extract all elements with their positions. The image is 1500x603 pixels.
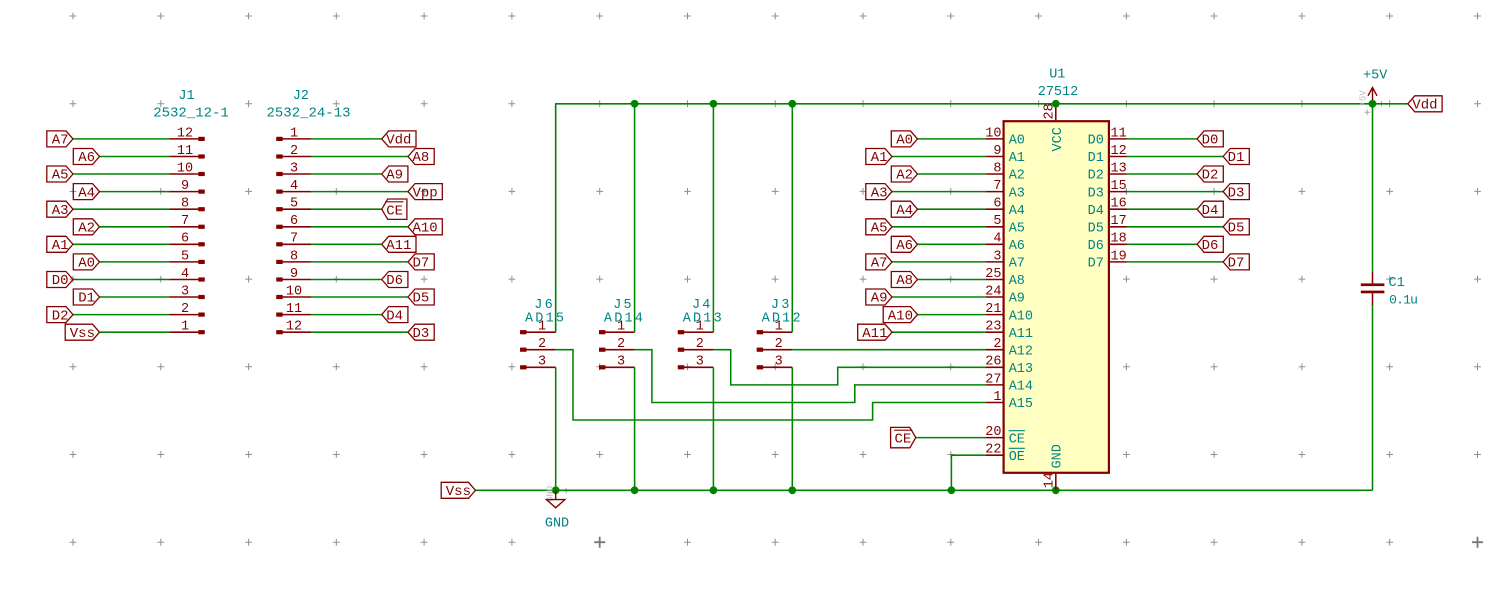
power symbol +5V — [1359, 69, 1389, 107]
svg-text:A4: A4 — [78, 185, 95, 201]
J1 pin 5 — [169, 249, 205, 264]
wire U1 to net D2 — [1127, 173, 1198, 175]
svg-text:21: 21 — [985, 302, 1001, 317]
wire J5 pin 2 to U1 A14 — [635, 350, 986, 403]
svg-text:3: 3 — [617, 355, 625, 370]
svg-text:A15: A15 — [1009, 397, 1033, 412]
svg-text:5: 5 — [290, 197, 298, 212]
global label CE — [382, 199, 407, 219]
svg-text:0.1u: 0.1u — [1389, 293, 1417, 308]
wire J3 pin 1 to +5V rail — [791, 104, 793, 332]
J1 pin 2 — [169, 302, 205, 317]
global label D3 — [408, 324, 434, 342]
svg-text:8: 8 — [290, 249, 298, 264]
global label A5 — [47, 166, 73, 184]
svg-text:A0: A0 — [1009, 134, 1025, 149]
connector J5 value AD14 — [604, 311, 645, 326]
svg-text:6: 6 — [290, 214, 298, 229]
global label A9 — [382, 166, 408, 184]
global label A4 — [891, 201, 917, 219]
svg-text:A1: A1 — [871, 150, 888, 166]
J1 pin 4 — [169, 267, 205, 282]
svg-text:3: 3 — [775, 355, 783, 370]
global label D6 — [382, 272, 408, 290]
svg-text:D1: D1 — [78, 291, 95, 307]
svg-text:2: 2 — [617, 337, 625, 352]
svg-text:A2: A2 — [896, 168, 913, 184]
wire J5 pin 1 to +5V rail — [634, 104, 636, 332]
global label A9 — [866, 289, 892, 307]
junction at +5V — [1369, 100, 1377, 108]
svg-text:18: 18 — [1111, 232, 1127, 247]
J2 pin 3 — [276, 161, 311, 176]
svg-text:A8: A8 — [413, 150, 430, 166]
svg-text:A4: A4 — [1009, 204, 1025, 219]
connector J2 reference — [293, 89, 309, 104]
svg-text:25: 25 — [985, 267, 1001, 282]
svg-text:2: 2 — [696, 337, 704, 352]
svg-text:13: 13 — [1111, 161, 1127, 176]
wire net D0 to J1 pin 4 — [73, 279, 169, 281]
U1 pin 8 (A2) — [986, 161, 1025, 183]
J5 pin 1 — [599, 320, 635, 335]
global label D5 — [408, 289, 434, 307]
svg-text:4: 4 — [290, 179, 298, 194]
junction on GND rail — [788, 486, 796, 494]
wire J2 pin 8 to net D7 — [311, 261, 408, 263]
J1 pin 9 — [169, 179, 205, 194]
global label A11 — [858, 324, 892, 342]
wire net A4 to J1 pin 9 — [100, 191, 170, 193]
wire net A0 to U1 — [918, 138, 987, 140]
wire net A3 to U1 — [892, 191, 986, 193]
svg-text:7: 7 — [290, 232, 298, 247]
J1 pin 8 — [169, 197, 205, 212]
svg-text:Vpp: Vpp — [413, 185, 438, 201]
U1 pin 23 (A11) — [985, 320, 1033, 342]
J1 pin 3 — [169, 284, 205, 299]
J3 pin 1 — [757, 320, 793, 335]
global label Vdd — [1408, 96, 1442, 114]
svg-text:U1: U1 — [1049, 68, 1065, 83]
U1 pin 28 (VCC) — [1042, 103, 1066, 151]
U1 pin 16 (D4) — [1088, 197, 1127, 219]
junction on GND rail — [1052, 486, 1060, 494]
global label A1 — [866, 149, 892, 167]
svg-text:1: 1 — [290, 126, 298, 141]
svg-text:10: 10 — [985, 126, 1001, 141]
U1 pin 18 (D6) — [1088, 232, 1127, 254]
svg-text:9: 9 — [993, 144, 1001, 159]
global label D2 — [1197, 166, 1223, 184]
wire net A7 to U1 — [892, 261, 986, 263]
U1 pin 20 (CE) — [985, 425, 1025, 447]
svg-text:A11: A11 — [1009, 327, 1033, 342]
svg-text:D6: D6 — [386, 273, 403, 289]
svg-text:11: 11 — [177, 144, 193, 159]
svg-text:D2: D2 — [1088, 169, 1104, 184]
svg-text:D7: D7 — [1228, 256, 1245, 272]
wire J2 pin 9 to net D6 — [311, 279, 381, 281]
U1 pin 19 (D7) — [1088, 249, 1127, 271]
global label D4 — [1197, 201, 1223, 219]
svg-text:22: 22 — [985, 443, 1001, 458]
J4 pin 2 — [678, 337, 714, 352]
wire J2 pin 11 to net D4 — [311, 314, 381, 316]
IC U1 27512 body — [1004, 121, 1109, 473]
global label D5 — [1223, 219, 1249, 237]
svg-text:A3: A3 — [1009, 186, 1025, 201]
svg-text:2532_24-13: 2532_24-13 — [266, 105, 350, 121]
global label D7 — [1223, 254, 1249, 272]
wire U1 to net D5 — [1127, 226, 1224, 228]
J5 pin 2 — [599, 337, 635, 352]
global label D0 — [1197, 131, 1223, 149]
svg-text:A11: A11 — [862, 326, 887, 342]
svg-text:5: 5 — [993, 214, 1001, 229]
U1 pin 13 (D2) — [1088, 161, 1127, 183]
svg-text:1: 1 — [181, 320, 189, 335]
svg-text:11: 11 — [286, 302, 302, 317]
connector J6 value AD15 — [525, 311, 566, 326]
svg-text:D3: D3 — [413, 326, 430, 342]
svg-text:1: 1 — [538, 320, 546, 335]
svg-text:D0: D0 — [1088, 134, 1104, 149]
svg-text:3: 3 — [538, 355, 546, 370]
svg-text:6: 6 — [993, 197, 1001, 212]
svg-text:A5: A5 — [1009, 222, 1025, 237]
J1 pin 7 — [169, 214, 205, 229]
wire U1 OE to GND rail — [951, 455, 986, 490]
J2 pin 4 — [276, 179, 311, 194]
U1 pin 25 (A8) — [985, 267, 1025, 289]
svg-text:2532_12-1: 2532_12-1 — [153, 105, 229, 121]
svg-text:A8: A8 — [896, 273, 913, 289]
svg-text:D7: D7 — [1088, 257, 1104, 272]
svg-text:4: 4 — [181, 267, 189, 282]
junction on GND rail — [631, 486, 639, 494]
wire J3 pin 2 to U1 A12 — [792, 349, 986, 351]
global label D1 — [73, 289, 99, 307]
wire J2 pin 10 to net D5 — [311, 296, 408, 298]
J1 pin 10 — [169, 161, 205, 176]
svg-text:A5: A5 — [52, 168, 69, 184]
svg-text:VCC: VCC — [1051, 127, 1066, 151]
J1 pin 12 — [169, 126, 205, 141]
svg-text:14: 14 — [1042, 472, 1057, 488]
wire J2 pin 1 to net Vdd — [311, 138, 381, 140]
svg-text:A5: A5 — [871, 221, 888, 237]
svg-text:1: 1 — [617, 320, 625, 335]
svg-text:CE: CE — [894, 432, 911, 448]
global label Vdd — [382, 131, 416, 149]
connector J1 reference — [178, 89, 194, 104]
svg-text:D5: D5 — [1228, 221, 1245, 237]
svg-text:11: 11 — [1111, 126, 1127, 141]
svg-text:17: 17 — [1111, 214, 1127, 229]
power symbol GND — [545, 486, 569, 532]
svg-text:Vdd: Vdd — [386, 133, 411, 149]
svg-text:GND: GND — [1051, 444, 1066, 468]
global label A7 — [866, 254, 892, 272]
J1 pin 1 — [169, 320, 205, 335]
connector J5 reference — [613, 298, 634, 313]
svg-text:26: 26 — [985, 355, 1001, 370]
global label D0 — [47, 272, 73, 290]
wire net D2 to J1 pin 2 — [73, 314, 169, 316]
svg-text:7: 7 — [993, 179, 1001, 194]
U1 pin 26 (A13) — [985, 355, 1033, 377]
U1 pin 27 (A14) — [985, 372, 1033, 394]
svg-text:27: 27 — [985, 372, 1001, 387]
global label D4 — [382, 307, 408, 325]
global label A6 — [891, 236, 917, 254]
svg-text:D6: D6 — [1088, 239, 1104, 254]
global label A7 — [47, 131, 73, 149]
global label A3 — [47, 201, 73, 219]
svg-text:A10: A10 — [413, 221, 438, 237]
svg-text:2: 2 — [538, 337, 546, 352]
connector J1 value 2532_12-1 — [153, 105, 229, 121]
svg-text:20: 20 — [985, 425, 1001, 440]
svg-text:D1: D1 — [1088, 151, 1104, 166]
wire +5V to Vdd label — [1373, 103, 1408, 105]
global label A8 — [891, 272, 917, 290]
svg-text:D1: D1 — [1228, 150, 1245, 166]
svg-text:D4: D4 — [1088, 204, 1104, 219]
J6 pin 2 — [520, 337, 556, 352]
J4 pin 3 — [678, 355, 714, 370]
wire net D1 to J1 pin 3 — [100, 296, 170, 298]
connector J4 value AD13 — [683, 311, 724, 326]
svg-text:Vss: Vss — [446, 484, 471, 500]
wire J5 pin 3 to GND rail — [634, 367, 636, 490]
svg-text:7: 7 — [181, 214, 189, 229]
wire net A6 to J1 pin 11 — [100, 156, 170, 158]
U1 pin 1 (A15) — [986, 390, 1033, 412]
wire GND rail — [476, 489, 1373, 491]
wire net A9 to U1 — [892, 296, 986, 298]
wire U1 to net D4 — [1127, 208, 1198, 210]
wire J2 pin 3 to net A9 — [311, 173, 381, 175]
global label A2 — [891, 166, 917, 184]
svg-text:A7: A7 — [871, 256, 888, 272]
junction on GND rail — [710, 486, 718, 494]
wire J6 pin 1 to +5V rail — [555, 104, 557, 332]
U1 pin 22 (OE) — [985, 443, 1025, 465]
svg-text:1: 1 — [775, 320, 783, 335]
svg-text:D2: D2 — [52, 308, 69, 324]
global label D7 — [408, 254, 434, 272]
junction on +5V rail — [710, 100, 718, 108]
svg-text:A8: A8 — [1009, 274, 1025, 289]
svg-text:A6: A6 — [896, 238, 913, 254]
connector J2 value 2532_24-13 — [266, 105, 350, 121]
global label A10 — [883, 307, 917, 325]
svg-text:Vdd: Vdd — [1412, 98, 1437, 114]
svg-text:3: 3 — [993, 249, 1001, 264]
J6 pin 3 — [520, 355, 556, 370]
svg-text:3: 3 — [696, 355, 704, 370]
svg-text:A10: A10 — [888, 308, 913, 324]
svg-text:3: 3 — [290, 161, 298, 176]
global label A8 — [408, 149, 434, 167]
global label A4 — [73, 184, 99, 202]
svg-text:C1: C1 — [1389, 276, 1405, 291]
wire J2 pin 2 to net A8 — [311, 156, 408, 158]
svg-text:15: 15 — [1111, 179, 1127, 194]
svg-text:D5: D5 — [1088, 222, 1104, 237]
svg-text:A9: A9 — [871, 291, 888, 307]
wire U1 to net D3 — [1127, 191, 1224, 193]
wire net A5 to U1 — [892, 226, 986, 228]
svg-text:A1: A1 — [52, 238, 69, 254]
svg-text:9: 9 — [290, 267, 298, 282]
svg-text:A13: A13 — [1009, 362, 1033, 377]
global label CE — [891, 427, 916, 447]
wire net A0 to J1 pin 5 — [100, 261, 170, 263]
wire net A3 to J1 pin 8 — [73, 208, 169, 210]
J2 pin 6 — [276, 214, 311, 229]
svg-text:5: 5 — [181, 249, 189, 264]
U1 reference — [1049, 68, 1065, 83]
svg-text:D0: D0 — [1202, 133, 1219, 149]
global label A1 — [47, 236, 73, 254]
J3 pin 2 — [757, 337, 793, 352]
svg-text:A2: A2 — [78, 221, 95, 237]
svg-text:OE: OE — [1009, 450, 1025, 465]
U1 pin 9 (A1) — [986, 144, 1025, 166]
J5 pin 3 — [599, 355, 635, 370]
global label D1 — [1223, 149, 1249, 167]
J4 pin 1 — [678, 320, 714, 335]
svg-text:A11: A11 — [386, 238, 411, 254]
svg-text:A6: A6 — [78, 150, 95, 166]
svg-text:2: 2 — [290, 144, 298, 159]
svg-text:23: 23 — [985, 320, 1001, 335]
wire net A8 to U1 — [918, 279, 987, 281]
J2 pin 8 — [276, 249, 311, 264]
svg-text:16: 16 — [1111, 197, 1127, 212]
svg-text:Vss: Vss — [70, 326, 95, 342]
svg-text:A7: A7 — [1009, 257, 1025, 272]
connector J4 reference — [692, 298, 713, 313]
svg-text:A3: A3 — [52, 203, 69, 219]
svg-text:A0: A0 — [78, 256, 95, 272]
svg-text:A12: A12 — [1009, 344, 1033, 359]
global label A0 — [891, 131, 917, 149]
svg-text:2: 2 — [993, 337, 1001, 352]
svg-text:J2: J2 — [293, 89, 309, 104]
svg-text:3: 3 — [181, 284, 189, 299]
junction at U1 VCC on +5V rail — [1052, 100, 1060, 108]
J1 pin 11 — [169, 144, 205, 159]
wire J2 pin 6 to net A10 — [311, 226, 408, 228]
J2 pin 9 — [276, 267, 311, 282]
svg-text:19: 19 — [1111, 249, 1127, 264]
svg-text:1: 1 — [696, 320, 704, 335]
global label A5 — [866, 219, 892, 237]
svg-text:8: 8 — [993, 161, 1001, 176]
J2 pin 10 — [276, 284, 311, 299]
wire U1 to net D7 — [1127, 261, 1224, 263]
svg-text:12: 12 — [286, 320, 302, 335]
C1 value 0.1u — [1389, 293, 1417, 308]
J6 pin 1 — [520, 320, 556, 335]
J2 pin 5 — [276, 197, 311, 212]
wire net A2 to J1 pin 7 — [100, 226, 170, 228]
wire net A7 to J1 pin 12 — [73, 138, 169, 140]
svg-text:8: 8 — [181, 197, 189, 212]
wire J3 pin 3 to GND rail — [791, 367, 793, 490]
J2 pin 1 — [276, 126, 311, 141]
U1 value 27512 — [1038, 85, 1079, 100]
wire net A11 to U1 — [892, 331, 986, 333]
global label D2 — [47, 307, 73, 325]
U1 pin 10 (A0) — [985, 126, 1025, 148]
wire U1 to net D6 — [1127, 243, 1198, 245]
U1 pin 11 (D0) — [1088, 126, 1127, 148]
svg-text:D5: D5 — [413, 291, 430, 307]
wire net CE to U1 — [916, 437, 986, 439]
wire J6 pin 2 to U1 A15 — [556, 350, 986, 420]
J2 pin 12 — [276, 320, 311, 335]
U1 pin 14 (GND) — [1042, 444, 1065, 490]
svg-text:CE: CE — [386, 203, 403, 219]
U1 pin 15 (D3) — [1088, 179, 1127, 201]
svg-text:10: 10 — [286, 284, 302, 299]
junction on +5V rail — [788, 100, 796, 108]
wire J4 pin 1 to +5V rail — [712, 104, 714, 332]
svg-text:12: 12 — [1111, 144, 1127, 159]
junction on GND rail — [948, 486, 956, 494]
global label D3 — [1223, 184, 1249, 202]
connector J3 value AD12 — [762, 311, 803, 326]
U1 pin 21 (A10) — [985, 302, 1033, 324]
J2 pin 11 — [276, 302, 311, 317]
U1 pin 4 (A6) — [986, 232, 1025, 254]
svg-text:12: 12 — [177, 126, 193, 141]
svg-text:1: 1 — [993, 390, 1001, 405]
svg-text:A6: A6 — [1009, 239, 1025, 254]
global label Vss — [441, 482, 475, 500]
wire J2 pin 5 to net CE — [311, 208, 381, 210]
wire U1 to net D0 — [1127, 138, 1198, 140]
wire net A2 to U1 — [918, 173, 987, 175]
svg-text:A2: A2 — [1009, 169, 1025, 184]
U1 pin 3 (A7) — [986, 249, 1025, 271]
C1 reference — [1389, 276, 1405, 291]
svg-text:4: 4 — [993, 232, 1001, 247]
wire net A1 to U1 — [892, 156, 986, 158]
svg-text:A0: A0 — [896, 133, 913, 149]
J2 pin 7 — [276, 232, 311, 247]
svg-text:A9: A9 — [386, 168, 403, 184]
U1 pin 17 (D5) — [1088, 214, 1127, 236]
svg-text:A14: A14 — [1009, 380, 1033, 395]
global label A11 — [382, 236, 416, 254]
wire net A5 to J1 pin 10 — [73, 173, 169, 175]
global label A2 — [73, 219, 99, 237]
junction on GND rail — [552, 486, 560, 494]
wire J4 pin 2 to U1 A13 — [713, 350, 986, 385]
wire +5V rail — [556, 104, 1373, 332]
svg-text:J1: J1 — [178, 89, 194, 104]
svg-text:D4: D4 — [1202, 203, 1219, 219]
svg-text:9: 9 — [181, 179, 189, 194]
svg-text:D6: D6 — [1202, 238, 1219, 254]
global label D6 — [1197, 236, 1223, 254]
